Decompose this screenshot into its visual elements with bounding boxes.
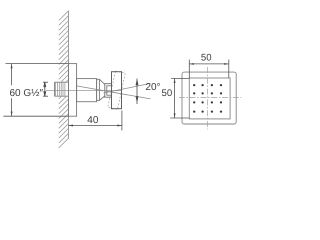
svg-text:50: 50 <box>162 88 173 99</box>
svg-text:50: 50 <box>201 52 212 63</box>
svg-text:20°: 20° <box>145 82 160 93</box>
dim 40 <box>68 111 122 131</box>
ball housing <box>105 84 112 98</box>
wall hatching <box>59 11 69 148</box>
nozzle dots 4x4 <box>193 84 222 113</box>
front view outer square <box>182 72 236 124</box>
centerline horizontal <box>179 97 242 99</box>
front view inner square <box>189 78 230 119</box>
neck cone <box>99 79 104 100</box>
wall <box>68 11 70 139</box>
centerline vertical <box>207 67 209 129</box>
pipe threads <box>56 82 65 96</box>
pipe nipple G1/2 behind wall <box>55 82 69 96</box>
svg-text:60 G½″: 60 G½″ <box>10 88 44 99</box>
swivel axis line falling <box>77 86 151 99</box>
swivel axis line rising <box>104 83 151 93</box>
dim 50 left <box>170 78 189 118</box>
body <box>77 79 97 102</box>
centerline axis <box>46 90 122 92</box>
dim 60 G1/2 <box>3 64 68 117</box>
dim 50 top <box>189 60 229 79</box>
svg-text:40: 40 <box>87 115 99 126</box>
head tilted dashed <box>108 71 125 109</box>
head solid <box>112 72 122 109</box>
ring nut <box>97 79 100 100</box>
angle dimension line <box>136 79 138 105</box>
pipe diameter arrows <box>43 82 48 96</box>
ball housing inner <box>107 86 112 95</box>
escutcheon flange at wall <box>69 64 77 117</box>
